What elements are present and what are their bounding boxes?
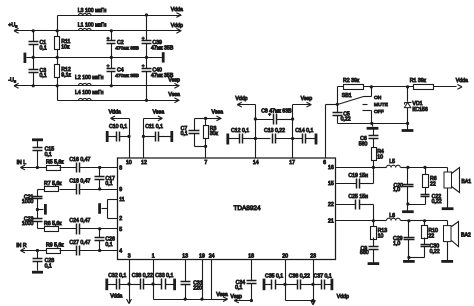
- wire L6 node to R10: [409, 220, 425, 222]
- resistor R1: [410, 78, 434, 90]
- capacitor C17: [95, 168, 116, 190]
- svg-text:1,0: 1,0: [393, 187, 400, 193]
- svg-text:R9 5,6к: R9 5,6к: [46, 242, 64, 248]
- loudspeaker BA2: [444, 222, 471, 247]
- svg-text:R2 39к: R2 39к: [343, 78, 360, 84]
- svg-text:TDA8924: TDA8924: [234, 205, 261, 212]
- capacitor C19: [336, 168, 374, 189]
- svg-text:Vdda: Vdda: [109, 110, 121, 116]
- wire mode bottom row: [338, 123, 408, 125]
- pin 11 label: [119, 197, 124, 203]
- node C24/C26: [98, 227, 101, 230]
- svg-text:L3 100 мкГн: L3 100 мкГн: [78, 8, 107, 14]
- capacitor C8: [256, 108, 293, 124]
- capacitor C28: [33, 251, 55, 271]
- node Vdda/C39: [145, 13, 148, 16]
- switch SB1 OFF contact: [363, 109, 384, 124]
- svg-text:C19 15н: C19 15н: [348, 173, 368, 179]
- svg-text:Vssa: Vssa: [153, 110, 165, 116]
- ground right of mid rail: [162, 52, 165, 62]
- svg-text:0,1: 0,1: [45, 264, 52, 270]
- pin 7 label: [204, 160, 207, 166]
- ground below C28: [32, 271, 43, 274]
- node C20/C22 ground: [406, 202, 409, 205]
- capacitor C12: [229, 128, 256, 144]
- svg-text:КС156: КС156: [412, 107, 427, 113]
- capacitor C39: [142, 16, 174, 58]
- node C32/pin3: [127, 282, 130, 285]
- svg-text:+: +: [142, 65, 145, 70]
- svg-text:Vssp: Vssp: [230, 294, 242, 300]
- svg-text:21: 21: [328, 218, 334, 224]
- node R2/ON: [370, 85, 373, 88]
- svg-text:+Uп: +Uп: [8, 23, 17, 29]
- node mid/C1: [32, 56, 35, 59]
- svg-text:0,22: 0,22: [341, 117, 351, 123]
- svg-text:22: 22: [328, 202, 334, 208]
- ground for C32: [105, 279, 108, 291]
- wire to pin 5: [100, 228, 118, 230]
- svg-text:1: 1: [152, 253, 155, 259]
- svg-text:0,1: 0,1: [105, 181, 112, 187]
- node R3 top: [204, 117, 207, 120]
- capacitor C38: [130, 273, 154, 290]
- ground at C9: [368, 262, 380, 265]
- node +U/R11: [56, 29, 59, 32]
- svg-text:BA2: BA2: [461, 233, 471, 239]
- node C18/C17: [98, 187, 101, 190]
- svg-text:Vdda: Vdda: [110, 293, 122, 299]
- svg-text:SB1: SB1: [342, 93, 352, 99]
- svg-text:C37 0,1: C37 0,1: [314, 274, 332, 280]
- pin 20 label: [282, 253, 288, 259]
- node C35/pin20: [283, 283, 286, 286]
- node IN L: [36, 166, 39, 169]
- svg-text:L2 100 мкГн: L2 100 мкГн: [75, 75, 104, 81]
- ground for C33: [173, 279, 176, 291]
- svg-text:0,1: 0,1: [45, 152, 52, 158]
- node C11/pin12: [142, 135, 145, 138]
- svg-text:C27 0,47: C27 0,47: [69, 240, 90, 246]
- svg-text:Vddp: Vddp: [171, 23, 183, 29]
- node R3 bottom: [204, 145, 207, 148]
- svg-text:11: 11: [119, 197, 124, 203]
- svg-text:C33 0,1: C33 0,1: [155, 273, 173, 279]
- node mid/R11: [56, 56, 59, 59]
- net arrow Vssp bottom: [230, 294, 251, 303]
- capacitor C2: [107, 31, 139, 58]
- pin 10 label: [126, 160, 132, 166]
- svg-text:13: 13: [182, 253, 188, 259]
- ground for C37: [330, 279, 333, 291]
- wire -U rail: [15, 85, 180, 87]
- svg-text:IN R: IN R: [16, 243, 27, 249]
- capacitor C7: [181, 119, 200, 147]
- node C8 right: [291, 117, 294, 120]
- capacitor C22: [408, 194, 442, 205]
- svg-text:24: 24: [209, 253, 215, 259]
- wire bus to pin 24: [186, 260, 212, 300]
- svg-text:C24 0,47: C24 0,47: [69, 218, 90, 224]
- svg-text:30к: 30к: [210, 131, 219, 137]
- capacitor C34: [235, 260, 256, 301]
- capacitor C4: [107, 58, 139, 86]
- node -U/C4: [110, 84, 113, 87]
- node L6/C29: [407, 219, 410, 222]
- resistor R7: [38, 181, 63, 192]
- ground for C35: [263, 279, 266, 291]
- svg-text:BA1: BA1: [461, 179, 471, 185]
- pin 14 label: [253, 160, 259, 166]
- svg-text:560: 560: [360, 250, 369, 256]
- ground at SB1 row: [367, 124, 379, 129]
- wire mode row: [338, 86, 457, 88]
- op-amp U1 TDA8924 body: [118, 158, 336, 260]
- svg-text:10: 10: [378, 234, 384, 240]
- wire pin 14 column: [255, 105, 257, 159]
- svg-text:C11 0,1: C11 0,1: [145, 124, 163, 130]
- wire pin 17 column: [292, 105, 294, 159]
- svg-text:19: 19: [199, 253, 205, 259]
- wire +U rail: [15, 30, 182, 32]
- node R1/VD1: [406, 85, 409, 88]
- svg-text:C32 0,1: C32 0,1: [108, 273, 126, 279]
- pin 4 label: [119, 249, 122, 255]
- capacitor C35: [265, 274, 286, 290]
- wire to pin 4: [100, 250, 118, 252]
- pin 9 label: [119, 187, 122, 193]
- net arrow Vssa at R3: [206, 110, 224, 121]
- capacitor C18: [60, 179, 100, 195]
- node -U/R12: [56, 84, 59, 87]
- capacitor C5: [333, 105, 351, 124]
- node +U/C2: [110, 29, 113, 32]
- node L5/C20: [406, 166, 409, 169]
- ground at BA2: [441, 260, 453, 263]
- ground between C21 C23: [38, 204, 46, 215]
- inductor L4: [75, 90, 104, 101]
- svg-text:17: 17: [289, 160, 295, 166]
- pin 16 label: [328, 165, 334, 171]
- node R10 top: [423, 219, 426, 222]
- switch SB1 arm: [338, 97, 364, 105]
- wire pin 3 column: [129, 260, 131, 285]
- svg-text:470мк 35В: 470мк 35В: [115, 73, 139, 79]
- svg-text:15: 15: [328, 181, 334, 187]
- svg-text:22: 22: [428, 234, 434, 240]
- capacitor C20: [393, 168, 414, 205]
- pin 19 label: [199, 253, 205, 259]
- node C12/pin14: [254, 137, 257, 140]
- capacitor C30: [409, 244, 440, 258]
- wire BA2 to ground: [447, 242, 449, 261]
- svg-text:2: 2: [119, 216, 122, 222]
- svg-text:0,22: 0,22: [430, 249, 440, 255]
- svg-text:Vdda: Vdda: [171, 7, 183, 13]
- resistor R12: [55, 58, 72, 86]
- pin 6 label: [323, 160, 326, 166]
- wire R3 to pin 7: [205, 147, 207, 159]
- node boot2/R13: [372, 219, 375, 222]
- net arrow Vdda down: [110, 285, 131, 304]
- capacitor C29: [393, 221, 415, 258]
- svg-text:18: 18: [248, 253, 254, 259]
- node C36/pin23: [311, 283, 314, 286]
- svg-text:12: 12: [141, 160, 147, 166]
- inductor L3: [78, 8, 107, 16]
- inductor L1: [78, 22, 107, 30]
- wire to pin 9: [100, 189, 118, 191]
- capacitor C1: [29, 31, 47, 58]
- capacitor C13: [256, 128, 293, 144]
- svg-text:C36 0,22: C36 0,22: [289, 274, 310, 280]
- wire Vssa rail: [58, 86, 180, 101]
- svg-text:C10 0,1: C10 0,1: [109, 124, 127, 130]
- svg-text:C38 0,22: C38 0,22: [132, 273, 153, 279]
- svg-text:560: 560: [359, 141, 368, 147]
- svg-text:6: 6: [323, 160, 326, 166]
- resistor R9: [38, 242, 65, 253]
- resistor R6: [38, 221, 63, 232]
- wire to speaker BA2: [425, 221, 448, 226]
- svg-text:C14 0,1: C14 0,1: [295, 128, 313, 134]
- svg-text:L4 100 мкГн: L4 100 мкГн: [75, 90, 104, 96]
- node C16/C17: [98, 166, 101, 169]
- node C38/pin1: [151, 282, 154, 285]
- capacitor C11: [144, 124, 172, 142]
- switch SB1 MUTE contact: [363, 102, 389, 108]
- ground for C14: [315, 134, 318, 145]
- svg-text:Vssp: Vssp: [168, 77, 180, 83]
- svg-text:4: 4: [119, 249, 122, 255]
- wire L5 node to R6: [408, 167, 426, 169]
- svg-text:1,0: 1,0: [393, 241, 400, 247]
- svg-text:L1 100 мкГн: L1 100 мкГн: [78, 22, 107, 28]
- svg-text:+: +: [142, 37, 145, 42]
- svg-text:47мк 35В: 47мк 35В: [151, 46, 174, 52]
- wire C7 R3 top: [195, 118, 206, 120]
- pin 13 label: [182, 253, 188, 259]
- svg-text:Vddp: Vddp: [337, 294, 349, 300]
- capacitor C24: [60, 218, 100, 234]
- ground at pins 11 2: [100, 203, 108, 214]
- capacitor C15: [33, 140, 55, 168]
- svg-text:Vssa: Vssa: [212, 110, 224, 116]
- capacitor C9: [360, 246, 379, 263]
- pin 3 label: [128, 253, 131, 259]
- wire pin 21 to node: [336, 220, 374, 222]
- svg-text:MUTE: MUTE: [374, 102, 389, 108]
- svg-text:0,1: 0,1: [235, 285, 242, 291]
- capacitor C25: [336, 194, 374, 221]
- inductor L6: [374, 213, 409, 221]
- svg-text:16: 16: [328, 165, 334, 171]
- ground for C10: [106, 131, 109, 142]
- svg-text:C13 0,22: C13 0,22: [264, 128, 285, 134]
- svg-text:C16 0,47: C16 0,47: [69, 157, 90, 163]
- pin 17 label: [289, 160, 295, 166]
- svg-text:8: 8: [119, 166, 122, 172]
- svg-text:0,1: 0,1: [105, 242, 112, 248]
- node Vssa/C40: [145, 99, 148, 102]
- node C31 bottom: [184, 298, 187, 301]
- pin 21 label: [328, 218, 334, 224]
- node pin23 bus: [311, 299, 314, 302]
- pin 5 label: [119, 227, 122, 233]
- svg-text:+: +: [107, 65, 110, 70]
- svg-text:1000: 1000: [22, 199, 34, 205]
- input IN R terminal: [16, 243, 37, 253]
- wire C11 to pin 12: [143, 137, 145, 159]
- svg-text:0,1: 0,1: [181, 131, 188, 137]
- svg-text:7: 7: [204, 160, 207, 166]
- capacitor C14: [293, 128, 316, 144]
- svg-text:R5 5,6к: R5 5,6к: [46, 160, 64, 166]
- ground at BA1: [442, 207, 454, 210]
- node OFF/ground: [370, 122, 373, 125]
- node C21/C23 ground: [36, 208, 39, 211]
- net arrow Vssp out: [168, 77, 180, 88]
- svg-text:14: 14: [253, 160, 259, 166]
- wire to pin 8: [100, 167, 118, 169]
- capacitor C36: [286, 274, 314, 290]
- resistor R10: [422, 221, 439, 245]
- svg-text:9,1к: 9,1к: [61, 73, 71, 79]
- svg-text:Vssp: Vssp: [301, 96, 313, 102]
- net arrow Vssa out: [168, 92, 180, 103]
- ground at C29: [403, 258, 415, 262]
- node mid/C39: [145, 56, 148, 59]
- resistor R5: [38, 160, 65, 171]
- capacitor C33: [154, 273, 175, 290]
- capacitor C26: [95, 229, 116, 251]
- wire pin 16 to node: [336, 167, 374, 169]
- svg-text:5: 5: [119, 227, 122, 233]
- svg-text:3: 3: [128, 253, 131, 259]
- svg-text:10: 10: [126, 160, 132, 166]
- capacitor C32: [107, 273, 130, 290]
- wire pin 1 column: [154, 260, 186, 300]
- node C27/C26: [98, 249, 101, 252]
- wire C7 R3 bottom: [195, 146, 206, 148]
- zener diode VD1 КС156: [404, 87, 427, 124]
- net arrow Vdda out: [171, 7, 183, 17]
- svg-text:C25 15н: C25 15н: [348, 194, 368, 200]
- svg-text:C35 0,1: C35 0,1: [265, 274, 283, 280]
- svg-text:L6: L6: [389, 213, 395, 219]
- svg-text:Vssa: Vssa: [168, 92, 180, 98]
- svg-text:+: +: [107, 37, 110, 42]
- svg-text:-Uп: -Uп: [8, 78, 16, 84]
- svg-text:470мк 35В: 470мк 35В: [115, 46, 139, 52]
- capacitor C23: [22, 210, 43, 229]
- svg-text:1000: 1000: [22, 221, 34, 227]
- node boot1/R4: [372, 166, 375, 169]
- capacitor C31: [181, 260, 203, 300]
- capacitor C3: [29, 58, 47, 86]
- svg-text:20: 20: [282, 253, 288, 259]
- net arrow Vssa bottom: [212, 292, 228, 301]
- svg-text:22: 22: [430, 182, 436, 188]
- capacitor C6: [359, 130, 379, 148]
- svg-text:23: 23: [310, 253, 316, 259]
- capacitor C21: [22, 190, 43, 210]
- node pin19 bus: [200, 298, 203, 301]
- net arrow Vddp out: [171, 23, 183, 33]
- svg-text:Vdda: Vdda: [456, 78, 468, 84]
- svg-text:R7 5,6к: R7 5,6к: [44, 181, 62, 187]
- svg-text:Vssa: Vssa: [216, 292, 228, 298]
- svg-text:R6 5,6к: R6 5,6к: [44, 221, 62, 227]
- svg-text:0,1: 0,1: [40, 46, 47, 52]
- svg-text:9: 9: [119, 187, 122, 193]
- loudspeaker BA1: [444, 168, 471, 193]
- inductor L2: [75, 75, 104, 85]
- ground for C11: [170, 131, 173, 142]
- pin 22 label: [328, 202, 334, 208]
- pin 8 label: [119, 166, 122, 172]
- svg-text:C4: C4: [117, 68, 124, 74]
- svg-text:C18 0,47: C18 0,47: [69, 179, 90, 185]
- wire C10 to pin 10: [129, 137, 131, 159]
- resistor R13: [371, 221, 388, 247]
- pin 15 label: [328, 181, 334, 187]
- wire mid ground rail: [27, 57, 163, 59]
- svg-text:C8 47мк 63В: C8 47мк 63В: [261, 108, 292, 114]
- input -Up terminal: [8, 78, 18, 89]
- svg-text:10: 10: [377, 154, 383, 160]
- ground above C15: [32, 138, 43, 141]
- ground for C12: [226, 134, 229, 145]
- svg-text:L5: L5: [389, 159, 395, 165]
- svg-text:0,22: 0,22: [432, 199, 442, 205]
- capacitor C27: [60, 240, 100, 255]
- wire to speaker BA1: [426, 168, 448, 173]
- ground at VD1: [402, 124, 414, 131]
- net arrow Vdda at R1: [456, 78, 468, 89]
- net arrow Vddp at pin14: [235, 96, 255, 107]
- svg-text:ON: ON: [374, 95, 382, 101]
- resistor R3: [204, 119, 219, 147]
- net arrow Vddp down: [311, 260, 349, 305]
- wire pin 19 column: [202, 260, 204, 300]
- svg-text:10к: 10к: [61, 44, 70, 50]
- svg-text:220: 220: [193, 286, 202, 292]
- input IN L terminal: [17, 160, 38, 170]
- inductor L5: [374, 159, 408, 167]
- node C29/C30 ground: [407, 256, 410, 259]
- pin 24 label: [209, 253, 215, 259]
- switch SB1 ON contact: [364, 87, 382, 101]
- net arrow Vssp at pin17: [293, 96, 313, 107]
- node C13/pin17: [291, 137, 294, 140]
- wire pins 11-2 loop: [108, 200, 118, 219]
- node R6 top: [423, 166, 426, 169]
- resistor R11: [55, 31, 71, 58]
- ground at C20: [402, 205, 414, 212]
- pin 18 label: [248, 253, 254, 259]
- pin 12 label: [141, 160, 147, 166]
- switch SB1 common: [336, 87, 352, 106]
- node VD1 bottom: [406, 122, 409, 125]
- svg-text:0,1: 0,1: [40, 73, 47, 79]
- pin 2 label: [119, 216, 122, 222]
- svg-text:OFF: OFF: [374, 109, 384, 115]
- svg-text:C2: C2: [117, 40, 124, 46]
- node IN R: [36, 249, 39, 252]
- pin 1 label: [152, 253, 155, 259]
- node C10/pin10: [127, 135, 130, 138]
